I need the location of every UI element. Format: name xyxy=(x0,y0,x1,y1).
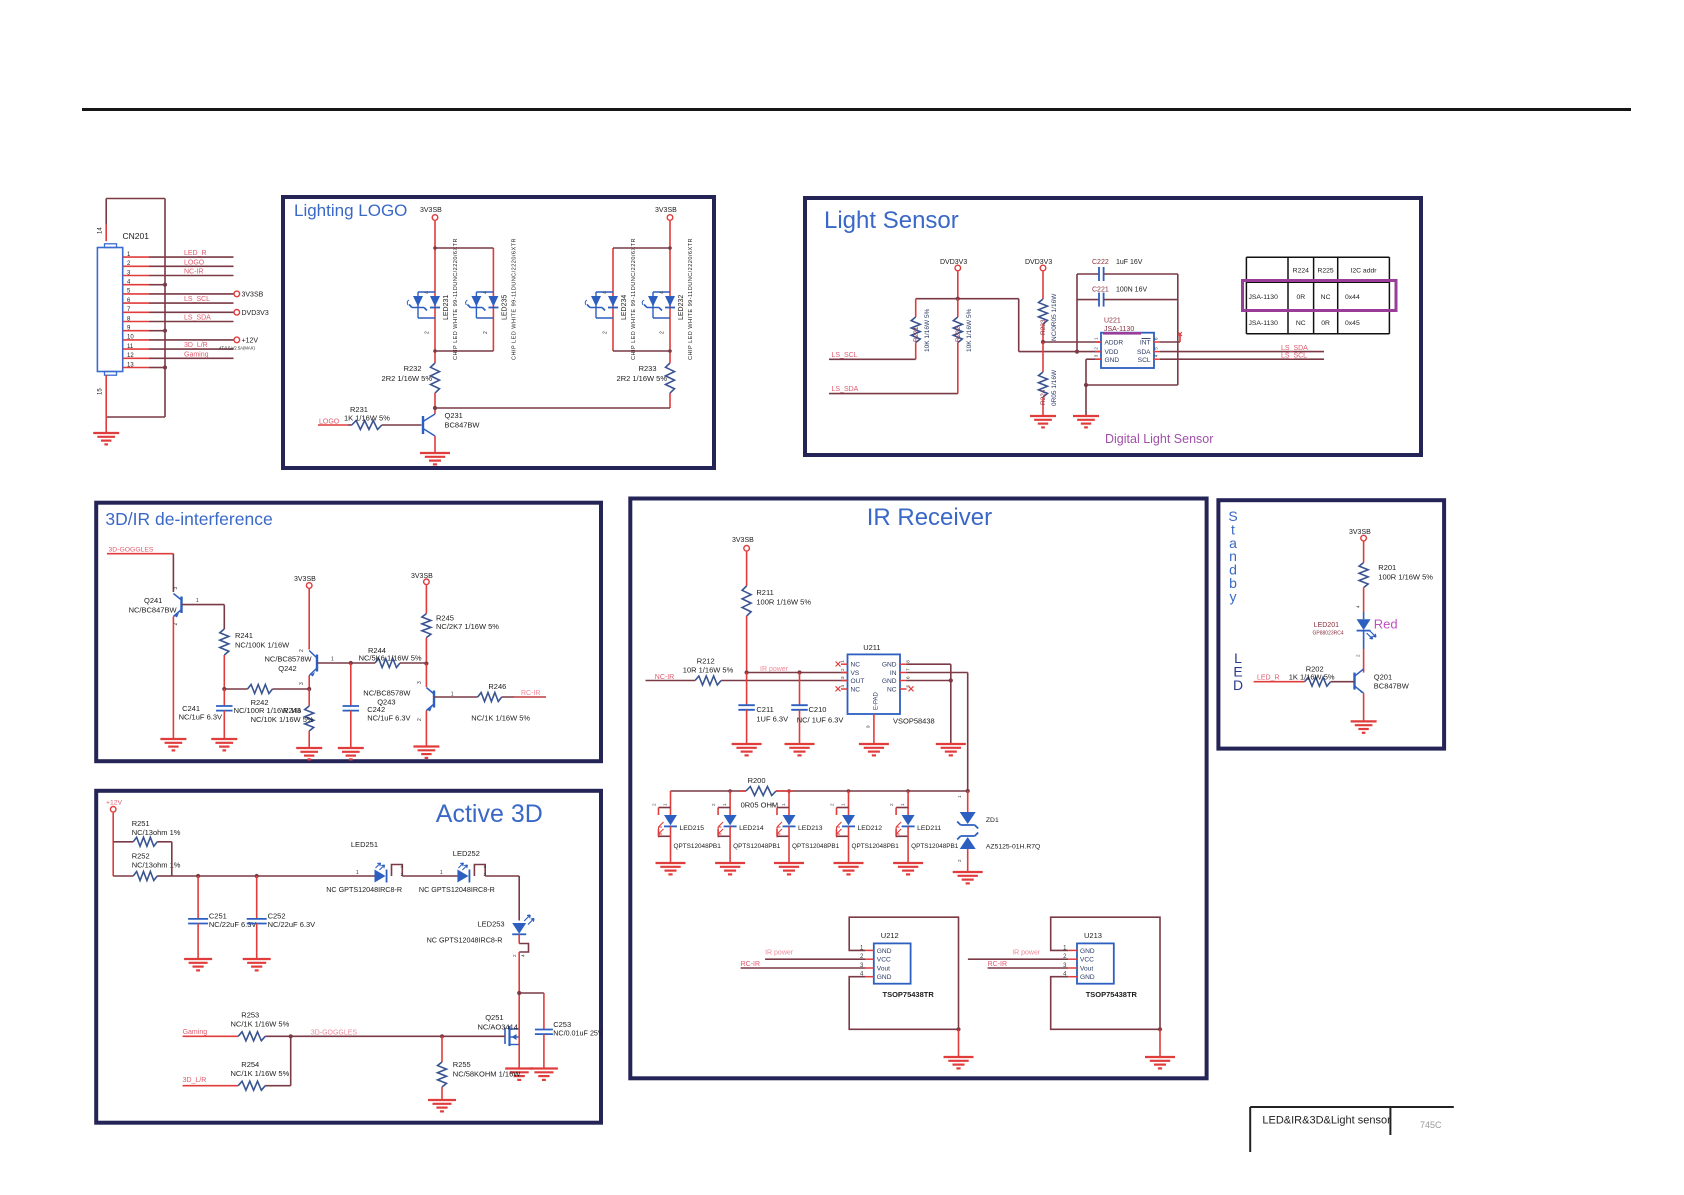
table I2C address options xyxy=(1246,257,1389,334)
svg-text:NC GPTS12048IRC8-R: NC GPTS12048IRC8-R xyxy=(326,885,402,894)
IC U213 TSOP75438TR xyxy=(1063,931,1137,999)
resistor R241 xyxy=(220,629,290,655)
svg-text:Vout: Vout xyxy=(877,965,890,972)
svg-text:1: 1 xyxy=(781,803,786,806)
wire U211 IN to LED rail xyxy=(907,673,968,792)
wire LED253 to Q251 drain xyxy=(517,952,521,1025)
svg-text:DVD3V3: DVD3V3 xyxy=(940,259,967,266)
Light Sensor block frame xyxy=(805,198,1421,455)
LED LED235 xyxy=(466,238,518,360)
svg-text:I2C addr: I2C addr xyxy=(1350,268,1377,275)
resistor R200 xyxy=(740,776,794,810)
svg-text:4: 4 xyxy=(483,291,489,294)
svg-text:NC/10K 1/16W 5%: NC/10K 1/16W 5% xyxy=(251,715,314,724)
net RC-IR (3D/IR) xyxy=(514,690,546,697)
svg-text:Digital Light Sensor: Digital Light Sensor xyxy=(1105,432,1213,446)
wire rail LED251-LED252 xyxy=(402,870,457,876)
svg-text:LED_R: LED_R xyxy=(184,250,207,257)
svg-text:BC847BW: BC847BW xyxy=(445,421,481,430)
net LED_R xyxy=(1254,675,1305,682)
svg-text:RC-IR: RC-IR xyxy=(521,690,540,697)
svg-text:LED&IR&3D&Light sensor: LED&IR&3D&Light sensor xyxy=(1262,1115,1391,1127)
resistor R252 xyxy=(113,852,181,881)
svg-text:4: 4 xyxy=(401,864,404,869)
svg-text:QPTS12048PB1: QPTS12048PB1 xyxy=(674,843,722,850)
svg-text:QPTS12048PB1: QPTS12048PB1 xyxy=(792,843,840,850)
IR Receiver title xyxy=(867,504,992,531)
svg-text:NC/1K 1/16W 5%: NC/1K 1/16W 5% xyxy=(471,714,530,723)
svg-text:LS_SDA: LS_SDA xyxy=(184,315,211,322)
svg-text:LED215: LED215 xyxy=(680,825,705,832)
svg-text:NC GPTS12048IRC8-R: NC GPTS12048IRC8-R xyxy=(427,936,503,945)
svg-text:U221: U221 xyxy=(1104,318,1121,325)
svg-text:SDA: SDA xyxy=(1137,349,1151,356)
svg-text:6: 6 xyxy=(1154,337,1159,340)
svg-text:2: 2 xyxy=(512,954,517,957)
svg-text:LED201: LED201 xyxy=(1314,622,1339,629)
svg-text:ADDR: ADDR xyxy=(1105,340,1124,347)
svg-text:Q231: Q231 xyxy=(445,411,463,420)
svg-text:INT: INT xyxy=(1140,340,1151,347)
ground U221 xyxy=(1073,416,1099,427)
LED LED253 xyxy=(427,915,534,957)
label LED vertical xyxy=(1233,650,1243,693)
svg-text:NC/AO3414: NC/AO3414 xyxy=(478,1023,518,1032)
resistor R243 xyxy=(251,689,314,748)
wire Q241 emitter to ground xyxy=(172,617,174,740)
net 3D-GOGGLES (gate) xyxy=(289,1030,505,1039)
wire CN201 pin 5 xyxy=(123,289,264,299)
ground U212 xyxy=(944,1057,974,1068)
wire main rail xyxy=(172,874,375,878)
capacitor C241 xyxy=(179,689,233,739)
wire INT stub xyxy=(1160,332,1182,342)
svg-text:6: 6 xyxy=(906,676,911,679)
svg-text:C211: C211 xyxy=(756,705,773,714)
Standby LED block frame xyxy=(1218,500,1444,748)
ground CN201 xyxy=(93,433,119,444)
capacitor C242 xyxy=(343,663,411,748)
svg-text:2: 2 xyxy=(603,331,609,334)
power +12V xyxy=(106,800,123,877)
svg-text:NC/2K7 1/16W 5%: NC/2K7 1/16W 5% xyxy=(436,622,499,631)
svg-text:U213: U213 xyxy=(1084,931,1102,940)
svg-text:RC-IR: RC-IR xyxy=(741,961,760,968)
svg-text:Lighting LOGO: Lighting LOGO xyxy=(294,201,407,220)
net RC-IR (U213) xyxy=(988,961,1069,968)
power 3V3SB (Q243) xyxy=(411,573,433,614)
op-amp U221 JSA-1130 light sensor IC xyxy=(1094,318,1161,369)
svg-text:CHIP LED WHITE 99-11DUNC/2220/: CHIP LED WHITE 99-11DUNC/2220/6XTR xyxy=(453,238,459,360)
svg-text:R232: R232 xyxy=(404,364,422,373)
svg-text:Q201: Q201 xyxy=(1374,673,1392,682)
svg-text:LS_SCL: LS_SCL xyxy=(1281,353,1307,360)
svg-text:LED232: LED232 xyxy=(678,295,685,320)
svg-text:IR power: IR power xyxy=(1012,950,1041,957)
svg-text:CN201: CN201 xyxy=(123,231,150,241)
power 3V3SB (Q242) xyxy=(294,576,316,650)
svg-text:LS_SCL: LS_SCL xyxy=(184,296,210,303)
transistor Q243 xyxy=(363,664,460,722)
ground E-PAD xyxy=(859,744,889,755)
caption Digital Light Sensor xyxy=(1105,432,1213,446)
svg-text:3V3SB: 3V3SB xyxy=(411,573,433,580)
net IR power (U213) xyxy=(968,950,1068,960)
svg-text:3: 3 xyxy=(840,676,845,679)
power 3V3SB (lighting logo left) xyxy=(420,207,442,248)
svg-text:JSA-1130: JSA-1130 xyxy=(1104,326,1134,333)
svg-text:ZD1: ZD1 xyxy=(986,817,999,824)
svg-text:NC/ 1UF 6.3V: NC/ 1UF 6.3V xyxy=(797,716,844,725)
connector CN201 xyxy=(97,231,149,375)
svg-text:Light Sensor: Light Sensor xyxy=(824,207,959,234)
svg-text:LED253: LED253 xyxy=(478,920,505,929)
svg-text:R251: R251 xyxy=(132,819,150,828)
svg-text:8: 8 xyxy=(906,660,911,663)
resistor R221 xyxy=(911,299,931,360)
wire E-PAD to ground xyxy=(866,714,874,744)
svg-text:1: 1 xyxy=(957,795,962,798)
svg-text:Q242: Q242 xyxy=(278,664,296,673)
wire Q242 base node xyxy=(349,661,353,665)
resistor R232 xyxy=(382,363,440,393)
svg-text:LED212: LED212 xyxy=(858,825,883,832)
svg-text:LED213: LED213 xyxy=(798,825,823,832)
net RC-IR (U212) xyxy=(741,961,865,968)
resistor R253 xyxy=(231,1011,291,1041)
svg-text:NC/13ohm 1%: NC/13ohm 1% xyxy=(132,861,181,870)
svg-text:Q241: Q241 xyxy=(144,596,162,605)
svg-text:R241: R241 xyxy=(235,631,253,640)
resistor R245 xyxy=(422,614,499,666)
wire U212 ground stem xyxy=(958,1029,960,1057)
Lighting LOGO block frame xyxy=(283,197,714,468)
svg-text:VCC: VCC xyxy=(877,957,891,964)
svg-text:2: 2 xyxy=(660,331,666,334)
svg-text:Q251: Q251 xyxy=(485,1013,503,1022)
svg-text:E-PAD: E-PAD xyxy=(874,691,880,710)
svg-text:VS: VS xyxy=(851,670,860,677)
svg-text:9: 9 xyxy=(866,725,871,728)
resistor R224 xyxy=(1039,342,1059,416)
svg-text:R222: R222 xyxy=(955,326,962,342)
transistor Q241 xyxy=(129,587,225,626)
svg-text:NC/BC8578W: NC/BC8578W xyxy=(265,655,313,664)
wire pullup top rail xyxy=(916,297,1019,301)
svg-text:C210: C210 xyxy=(809,705,827,714)
svg-text:DVD3V3: DVD3V3 xyxy=(242,310,269,317)
svg-text:2: 2 xyxy=(889,803,894,806)
svg-text:LS_SDA: LS_SDA xyxy=(1281,345,1308,352)
svg-text:2: 2 xyxy=(417,718,423,721)
svg-text:NC/1uF 6.3V: NC/1uF 6.3V xyxy=(179,713,222,722)
svg-text:2: 2 xyxy=(840,668,845,671)
TVS diode ZD1 xyxy=(957,791,1040,872)
svg-text:GND: GND xyxy=(1080,948,1095,955)
svg-text:R221: R221 xyxy=(913,326,920,342)
net IR power (U211) xyxy=(760,666,789,673)
svg-text:SCL: SCL xyxy=(1138,357,1151,364)
svg-text:10R 1/16W 5%: 10R 1/16W 5% xyxy=(683,666,734,675)
ground LED215 xyxy=(656,863,686,874)
wire LED pair 1 bottom rail xyxy=(433,349,493,363)
wire CN201 pin 13 xyxy=(123,362,167,369)
svg-text:JSA-1130: JSA-1130 xyxy=(1249,294,1279,301)
svg-text:U211: U211 xyxy=(863,643,880,652)
svg-text:R212: R212 xyxy=(697,657,715,666)
svg-text:2: 2 xyxy=(299,649,305,652)
svg-text:NC/1K 1/16W 5%: NC/1K 1/16W 5% xyxy=(231,1069,290,1078)
wire U213 ground stem xyxy=(1159,1029,1161,1057)
svg-text:3D-GOGGLES: 3D-GOGGLES xyxy=(109,547,154,554)
svg-text:NC: NC xyxy=(1296,320,1306,327)
svg-text:IR Receiver: IR Receiver xyxy=(867,504,992,531)
wire CN201 pin14 loop top xyxy=(106,199,165,242)
title block number xyxy=(1420,1120,1442,1130)
LED LED215 xyxy=(652,791,722,863)
svg-text:4: 4 xyxy=(521,954,526,957)
svg-text:1: 1 xyxy=(196,598,199,604)
svg-text:IR power: IR power xyxy=(765,950,794,957)
resistor R231 xyxy=(344,405,422,430)
svg-text:3V3SB: 3V3SB xyxy=(242,292,264,299)
power DVD3V3 (right) xyxy=(1025,259,1052,299)
svg-text:4: 4 xyxy=(660,291,666,294)
svg-text:3V3SB: 3V3SB xyxy=(655,207,677,214)
svg-text:2R2 1/16W 5%: 2R2 1/16W 5% xyxy=(382,374,433,383)
transistor Q251 mosfet xyxy=(478,1013,520,1046)
svg-text:1uF 16V: 1uF 16V xyxy=(1116,259,1143,266)
svg-text:0x45: 0x45 xyxy=(1345,320,1360,327)
net LS_SCL (right) xyxy=(1160,353,1324,360)
svg-text:NC GPTS12048IRC8-R: NC GPTS12048IRC8-R xyxy=(419,885,495,894)
capacitor C252 xyxy=(247,876,315,959)
svg-text:Gaming: Gaming xyxy=(184,351,209,358)
svg-text:3V3SB: 3V3SB xyxy=(732,537,754,544)
svg-text:0x44: 0x44 xyxy=(1345,294,1360,301)
LED LED214 xyxy=(711,791,781,863)
ground U213 xyxy=(1145,1057,1175,1068)
wire Q243 emitter to ground xyxy=(425,711,427,747)
svg-text:NC/22uF 6.3V: NC/22uF 6.3V xyxy=(209,920,257,929)
transistor Q201 xyxy=(1355,669,1410,693)
Active 3D block frame xyxy=(96,791,601,1123)
svg-text:QPTS12048PB1: QPTS12048PB1 xyxy=(733,843,781,850)
resistor R242 xyxy=(224,685,309,716)
svg-text:NC/58KOHM 1/16W: NC/58KOHM 1/16W xyxy=(453,1070,521,1079)
IC U212 TSOP75438TR xyxy=(860,931,934,999)
capacitor C210 xyxy=(791,673,843,745)
svg-text:3: 3 xyxy=(1094,354,1099,357)
wire R232 to Q231 collector xyxy=(433,393,437,414)
svg-text:R225: R225 xyxy=(1317,268,1333,275)
svg-text:11: 11 xyxy=(127,344,134,350)
wire CN201 pin 7 xyxy=(123,307,269,317)
net 3D-GOGGLES xyxy=(107,547,173,593)
ground C241 xyxy=(211,739,237,750)
ground Q241 xyxy=(160,739,186,750)
svg-text:1: 1 xyxy=(900,803,905,806)
svg-text:VSOP58438: VSOP58438 xyxy=(893,717,935,726)
LED LED212 xyxy=(830,791,900,863)
ground LED214 xyxy=(715,863,745,874)
label Standby vertical xyxy=(1228,508,1237,604)
svg-text:3: 3 xyxy=(417,681,423,684)
svg-text:NC/1K 1/16W 5%: NC/1K 1/16W 5% xyxy=(231,1020,290,1029)
wire CN201 pin 2 xyxy=(123,259,234,267)
resistor R233 xyxy=(617,363,675,393)
ground C252 xyxy=(243,959,271,970)
ground Q243 xyxy=(413,747,439,758)
svg-text:R246: R246 xyxy=(488,682,506,691)
svg-text:13: 13 xyxy=(127,362,134,368)
svg-text:1: 1 xyxy=(841,803,846,806)
svg-text:R255: R255 xyxy=(453,1060,471,1069)
svg-text:QPTS12048PB1: QPTS12048PB1 xyxy=(852,843,900,850)
svg-text:100N 16V: 100N 16V xyxy=(1116,287,1147,294)
wire CN201 pin 3 xyxy=(123,269,234,277)
ground LED212 xyxy=(834,863,864,874)
wire rail to VDD xyxy=(1019,299,1101,354)
svg-text:LED211: LED211 xyxy=(917,825,941,832)
wire U211 GND pins xyxy=(907,664,953,744)
svg-text:100R 1/16W 5%: 100R 1/16W 5% xyxy=(756,598,811,607)
wire LED201 to Q201 xyxy=(1363,649,1365,673)
ground R243 xyxy=(296,748,322,759)
svg-text:2R2 1/16W 5%: 2R2 1/16W 5% xyxy=(617,374,668,383)
svg-text:Red: Red xyxy=(1374,617,1398,632)
resistor R202 xyxy=(1289,665,1355,687)
3D/IR de-interference block frame xyxy=(96,503,601,762)
svg-text:NC/13ohm 1%: NC/13ohm 1% xyxy=(132,828,181,837)
svg-text:0R05 1/16W: 0R05 1/16W xyxy=(1051,369,1058,406)
wire R254 up to gate node xyxy=(290,1036,292,1085)
power DVD3V3 (left) xyxy=(940,259,967,299)
svg-text:LED_R: LED_R xyxy=(1257,675,1280,682)
ground Q251 xyxy=(505,1069,533,1080)
svg-text:IN: IN xyxy=(890,670,897,677)
svg-text:NC: NC xyxy=(851,662,861,669)
net LS_SDA (left) xyxy=(829,386,958,393)
ground C211 xyxy=(732,744,762,755)
svg-text:2: 2 xyxy=(770,803,775,806)
svg-text:10: 10 xyxy=(127,335,134,341)
ground C242 xyxy=(338,748,364,759)
wire Q231 emitter to ground xyxy=(434,436,436,453)
svg-text:VCC: VCC xyxy=(1080,957,1094,964)
svg-text:NC/5K6 1/16W 5%: NC/5K6 1/16W 5% xyxy=(359,654,422,663)
svg-text:NC: NC xyxy=(851,686,861,693)
wire rail to LED253 xyxy=(485,876,519,921)
wire CN201 pin 1 xyxy=(123,250,234,258)
LED LED211 xyxy=(889,791,959,863)
svg-text:5: 5 xyxy=(1154,347,1159,350)
svg-text:JSA-1130: JSA-1130 xyxy=(1249,320,1279,327)
svg-text:LED234: LED234 xyxy=(621,295,628,320)
resistor R222 xyxy=(953,299,973,394)
svg-text:4: 4 xyxy=(484,864,487,869)
svg-text:CHIP LED WHITE 99-11DUNC/2220/: CHIP LED WHITE 99-11DUNC/2220/6XTR xyxy=(631,238,637,360)
svg-text:LED231: LED231 xyxy=(443,295,450,320)
svg-text:0R: 0R xyxy=(1296,294,1305,301)
svg-text:NC/100K 1/16W: NC/100K 1/16W xyxy=(235,641,290,650)
svg-text:C221: C221 xyxy=(1092,287,1109,294)
ground R255 xyxy=(428,1100,456,1111)
wire LED pair 1 top rail xyxy=(433,246,493,250)
svg-text:1: 1 xyxy=(663,803,668,806)
resistor R255 xyxy=(438,1036,522,1100)
LED LED251 xyxy=(326,840,403,894)
wire GND pin to ground xyxy=(1086,359,1101,416)
svg-text:NC/BC8578W: NC/BC8578W xyxy=(363,689,411,698)
svg-text:+12V: +12V xyxy=(242,338,259,345)
svg-text:R211: R211 xyxy=(756,588,773,597)
ground LED213 xyxy=(774,863,804,874)
svg-text:3D_L/R: 3D_L/R xyxy=(183,1077,207,1084)
net Gaming xyxy=(183,1029,239,1036)
resistor R212 xyxy=(683,657,848,686)
svg-text:R200: R200 xyxy=(748,776,766,785)
capacitor C221 xyxy=(1077,287,1178,307)
svg-text:14: 14 xyxy=(98,227,104,234)
svg-text:1K 1/16W 5%: 1K 1/16W 5% xyxy=(1289,673,1335,682)
svg-text:1: 1 xyxy=(451,692,454,698)
svg-text:R243: R243 xyxy=(283,706,301,715)
svg-text:+12V: +12V xyxy=(106,800,123,807)
svg-text:4: 4 xyxy=(840,685,845,688)
svg-text:NC/0.01uF 25V: NC/0.01uF 25V xyxy=(553,1028,603,1037)
wire CN201 pin 10 xyxy=(123,335,259,345)
svg-text:TSOP75438TR: TSOP75438TR xyxy=(1086,990,1138,999)
svg-text:QPTS12048PB1: QPTS12048PB1 xyxy=(911,843,959,850)
svg-text:0R: 0R xyxy=(1321,320,1330,327)
wire Q251 source to ground xyxy=(518,1045,520,1069)
ground C251 xyxy=(184,959,212,970)
wire CN201 loop bottom xyxy=(106,416,165,418)
svg-text:D: D xyxy=(1233,677,1243,693)
svg-text:Active 3D: Active 3D xyxy=(436,800,543,828)
wire CN201 pin 6 xyxy=(123,296,234,304)
svg-text:R224: R224 xyxy=(1293,268,1309,275)
capacitor C222 xyxy=(1077,259,1178,281)
svg-text:12: 12 xyxy=(127,353,134,359)
wire CN201 loop right vertical xyxy=(164,199,166,418)
note +12V current rating xyxy=(219,346,255,351)
svg-text:1: 1 xyxy=(1094,337,1099,340)
svg-text:Q243: Q243 xyxy=(377,698,395,707)
svg-text:Vout: Vout xyxy=(1080,965,1093,972)
wire CN201 pin 12 xyxy=(123,351,234,359)
LED LED234 xyxy=(585,238,637,360)
svg-text:LOGO: LOGO xyxy=(184,259,205,266)
svg-text:RC-IR: RC-IR xyxy=(988,961,1007,968)
ground Q231 xyxy=(420,453,450,464)
svg-text:NC: NC xyxy=(887,686,897,693)
wire R251/R252 right join xyxy=(171,842,173,876)
wire cap loop right xyxy=(1084,274,1178,387)
wire LED pair 2 top rail xyxy=(613,246,672,250)
svg-text:LED252: LED252 xyxy=(453,849,480,858)
svg-text:745C: 745C xyxy=(1420,1120,1442,1130)
svg-text:NC/BC847BW: NC/BC847BW xyxy=(129,606,178,615)
LED LED232 xyxy=(642,238,694,360)
svg-text:2: 2 xyxy=(425,331,431,334)
power 3V3SB (standby) xyxy=(1349,529,1371,563)
svg-text:y: y xyxy=(1230,588,1237,604)
svg-text:R224: R224 xyxy=(1040,389,1047,405)
svg-text:R201: R201 xyxy=(1378,563,1396,572)
svg-text:LED235: LED235 xyxy=(501,295,508,320)
